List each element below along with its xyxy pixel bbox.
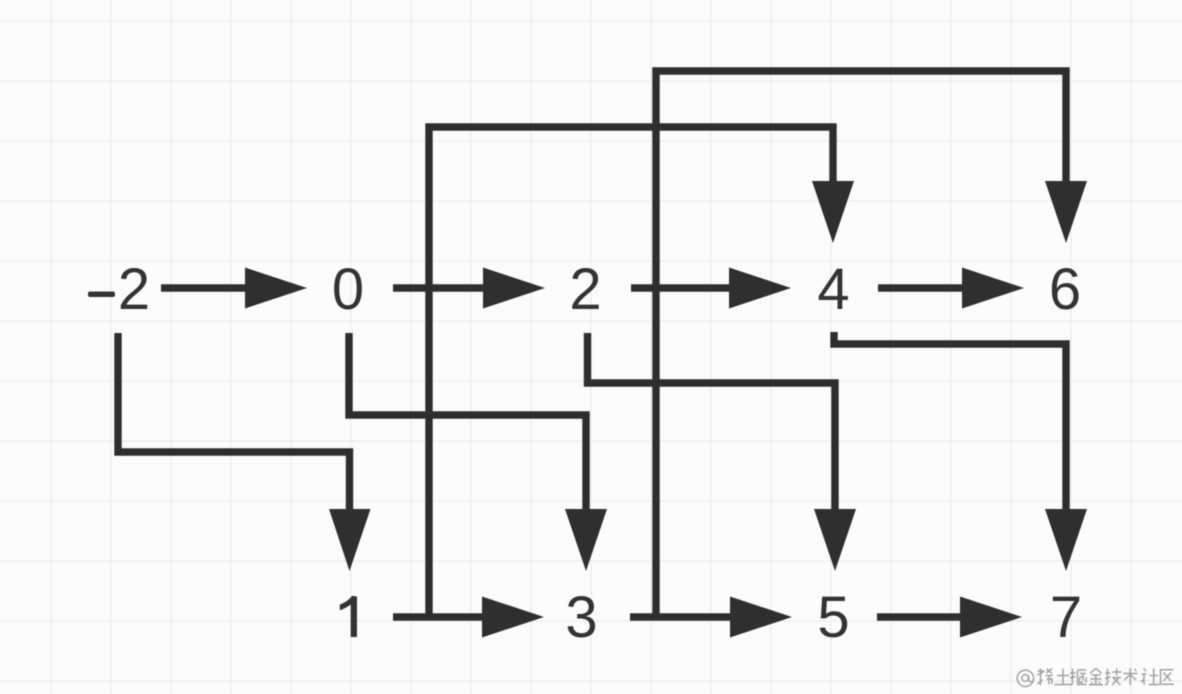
watermark glyph 技 xyxy=(1105,668,1122,685)
arrowhead down into 1 xyxy=(329,509,371,571)
arrowhead 5 to 7 xyxy=(960,597,1022,638)
arrow shaft 1 to 3 xyxy=(393,613,483,620)
arrowhead 4 to 6 xyxy=(962,268,1024,309)
svg-text:0: 0 xyxy=(332,257,364,322)
watermark glyph 金 xyxy=(1089,668,1103,685)
arrowhead down into 3 xyxy=(565,509,607,571)
arrowhead down into 4 xyxy=(812,181,854,243)
arrowhead down into 7 xyxy=(1045,509,1087,571)
arrow shaft 5 to 7 xyxy=(877,613,960,620)
arrowhead 0 to 2 xyxy=(483,268,545,309)
svg-text:3: 3 xyxy=(565,585,597,650)
wire 3 to 6 xyxy=(656,71,1066,620)
arrow shaft 0 to 2 xyxy=(393,284,484,291)
svg-text:4: 4 xyxy=(817,257,849,322)
watermark glyph 土 xyxy=(1055,669,1072,685)
wire 4 to 7 xyxy=(834,332,1066,512)
watermark glyph @ xyxy=(1017,670,1033,686)
arrowhead 3 to 5 xyxy=(730,597,792,638)
svg-text:2: 2 xyxy=(569,257,601,322)
wire 2 to 5 xyxy=(588,333,836,512)
watermark glyph 区 xyxy=(1161,670,1175,685)
svg-text:5: 5 xyxy=(817,585,849,650)
svg-text:7: 7 xyxy=(1050,585,1082,650)
arrowhead 2 to 4 xyxy=(729,268,791,309)
watermark @稀土掘金技术社区 xyxy=(1017,668,1174,686)
arrow shaft 3 to 5 xyxy=(630,613,731,620)
svg-text:2: 2 xyxy=(118,257,150,322)
wire 0 to 3 xyxy=(349,333,586,512)
arrowhead 1 to 3 xyxy=(482,597,544,638)
arrowhead down into 6 xyxy=(1045,181,1087,243)
arrow shaft 4 to 6 xyxy=(878,284,962,291)
watermark glyph 术 xyxy=(1123,668,1138,685)
arrowhead down into 5 xyxy=(814,509,856,571)
watermark glyph 稀 xyxy=(1037,669,1053,686)
node -2 minus sign xyxy=(88,292,115,298)
arrow shaft 2 to 4 xyxy=(631,284,730,291)
wire -2 to 1 xyxy=(118,333,350,512)
watermark glyph 掘 xyxy=(1070,669,1087,685)
watermark glyph 社 xyxy=(1141,669,1160,686)
node 1 xyxy=(340,596,357,637)
wire 1 to 4 xyxy=(429,127,833,620)
svg-text:6: 6 xyxy=(1049,257,1081,322)
arrowhead -2 to 0 xyxy=(245,268,307,309)
arrow shaft -2 to 0 xyxy=(161,284,246,291)
